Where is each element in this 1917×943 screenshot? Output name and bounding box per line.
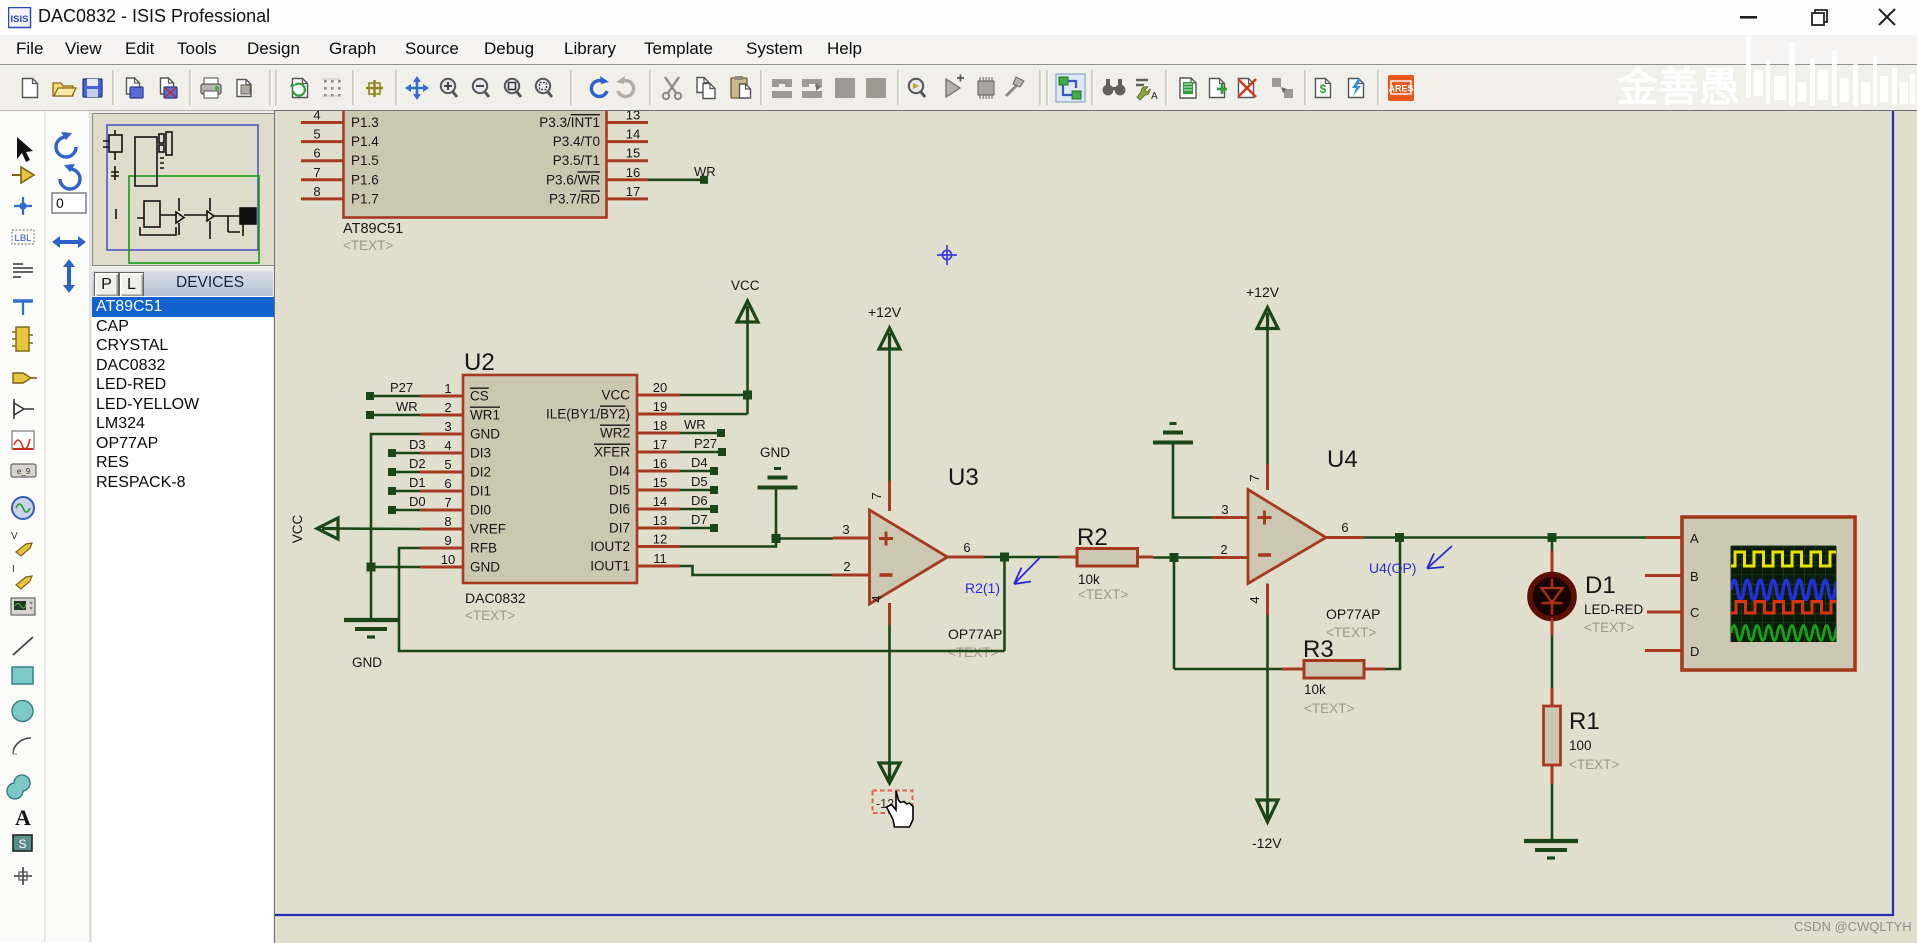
svg-text:R2: R2 xyxy=(1077,524,1108,551)
pin 14 P3.4/T0 of U1 xyxy=(553,127,648,150)
svg-text:D: D xyxy=(1690,644,1699,659)
power arrow VCC top xyxy=(737,301,758,322)
svg-text:S: S xyxy=(18,837,26,851)
svg-text:14: 14 xyxy=(653,494,667,509)
toolbar icon: search tags xyxy=(1103,79,1126,95)
svg-text:D6: D6 xyxy=(691,493,708,508)
tool icon: 2D box mode xyxy=(12,667,33,684)
wire ground to U4 pin 3 xyxy=(1173,443,1212,518)
toolbar icon: print xyxy=(201,78,221,98)
pin D stub of scope xyxy=(1645,649,1682,652)
svg-text:VREF: VREF xyxy=(470,522,506,537)
toolbar icon: block rotate xyxy=(835,78,855,98)
svg-text:WR2: WR2 xyxy=(600,426,630,441)
feedback wire U3 output down xyxy=(1003,557,1006,651)
plus symbol of U4 xyxy=(1258,511,1272,525)
toolbar icon: redo xyxy=(616,76,634,97)
minimap viewport rectangle xyxy=(129,176,259,263)
pin 17 P3.7/RD of U1 xyxy=(549,184,648,207)
pin 7 P1.6 of U1 xyxy=(301,165,379,188)
svg-text:IOUT2: IOUT2 xyxy=(590,539,630,554)
svg-text:6: 6 xyxy=(313,146,320,161)
svg-text:U4: U4 xyxy=(1327,446,1358,473)
svg-text:3: 3 xyxy=(1221,502,1228,517)
wire VCC node to U2 pin 19 xyxy=(680,413,748,416)
svg-text:10: 10 xyxy=(441,552,455,567)
junction at U2 ground node xyxy=(367,563,376,572)
svg-text:P1.3: P1.3 xyxy=(351,115,379,130)
pin 3 stub of U3 xyxy=(833,537,870,540)
wire D4 at U2 pin 16 xyxy=(680,470,711,473)
svg-text:WR: WR xyxy=(396,399,418,414)
svg-text:8: 8 xyxy=(444,514,451,529)
tool icon: generator mode xyxy=(12,497,34,519)
toolbar icon: decompose xyxy=(1006,77,1024,96)
svg-text:DI5: DI5 xyxy=(609,483,630,498)
menu bar xyxy=(0,35,1917,65)
wire WR at U2 pin 18 xyxy=(680,432,718,435)
svg-text:C: C xyxy=(1690,605,1699,620)
terminal square WR net xyxy=(700,176,708,184)
wire ground stem to node xyxy=(775,488,778,539)
svg-text:18: 18 xyxy=(653,418,667,433)
toolbar icon: packaging tool xyxy=(978,77,994,99)
wire to ground symbol xyxy=(370,567,373,619)
svg-text:P1.7: P1.7 xyxy=(351,191,379,206)
toolbar icon: undo xyxy=(591,76,609,97)
toolbar icon: make device xyxy=(946,75,964,98)
svg-text:DI3: DI3 xyxy=(470,446,491,461)
terminal square D0 net xyxy=(388,506,396,514)
minus symbol of U3 xyxy=(880,573,893,577)
toolbar icon: zoom all xyxy=(505,79,521,97)
pin 7 stub of U4 xyxy=(1266,464,1269,490)
pin 20 VCC of U2 xyxy=(601,380,680,403)
terminal square D1 net xyxy=(388,487,396,495)
svg-text:17: 17 xyxy=(626,184,640,199)
svg-text:1: 1 xyxy=(444,381,451,396)
junction at VCC / pin20 node xyxy=(743,391,752,400)
svg-text:DAC0832: DAC0832 xyxy=(465,590,526,606)
svg-text:DI2: DI2 xyxy=(470,465,491,480)
dac U2 DAC0832 body xyxy=(463,375,637,583)
toolbar icon: redraw xyxy=(290,79,308,98)
object selector panel xyxy=(91,111,275,942)
svg-text:ILE(BY1/BY2): ILE(BY1/BY2) xyxy=(546,407,630,422)
svg-text:DI6: DI6 xyxy=(609,502,630,517)
terminal square D5 net xyxy=(710,486,718,494)
svg-text:P3.5/T1: P3.5/T1 xyxy=(553,153,600,168)
svg-text:7: 7 xyxy=(869,492,884,499)
svg-text:-12V: -12V xyxy=(1252,835,1282,851)
minimap mini schematic xyxy=(103,130,256,239)
svg-text:10k: 10k xyxy=(1304,682,1326,697)
svg-text:P3.3/INT1: P3.3/INT1 xyxy=(539,115,600,130)
toolbar icon: zoom in xyxy=(441,79,457,97)
svg-text:A: A xyxy=(15,805,31,830)
toolbar icon: remove sheet xyxy=(1238,79,1256,98)
svg-text:R3: R3 xyxy=(1303,636,1334,663)
pin 8 P1.7 of U1 xyxy=(301,184,379,207)
pin 10 GND of U2 xyxy=(420,552,500,575)
op-amp U4 body xyxy=(1248,490,1326,584)
tool icon: marker mode xyxy=(14,867,32,885)
svg-text:P27: P27 xyxy=(694,436,717,451)
wire +12V to U4 pin 7 xyxy=(1266,329,1269,465)
ground symbol below U2 xyxy=(344,620,398,637)
schematic canvas xyxy=(274,110,1917,943)
pin 16 P3.6/WR of U1 xyxy=(546,165,648,188)
tool icon: wire label mode xyxy=(12,230,34,244)
svg-text:P3.6/WR: P3.6/WR xyxy=(546,172,600,187)
svg-text:15: 15 xyxy=(626,146,640,161)
wire D0 to U2 pin 7 xyxy=(392,509,420,512)
toolbar icon: open design xyxy=(53,83,76,96)
tool icon: bus mode xyxy=(13,301,33,315)
toolbar icon: design explorer xyxy=(1180,78,1196,98)
svg-text:0: 0 xyxy=(56,195,64,211)
wire D1 to R1 xyxy=(1551,635,1554,688)
toolbar icon: goto sheet xyxy=(1272,78,1293,98)
terminal square WR net right xyxy=(717,429,725,437)
junction at U4 output xyxy=(1395,533,1404,542)
toolbar icon: zoom out xyxy=(473,79,489,97)
svg-text:U4(OP): U4(OP) xyxy=(1369,560,1416,576)
svg-text:<TEXT>: <TEXT> xyxy=(1569,757,1619,772)
svg-text:2: 2 xyxy=(444,400,451,415)
wire U3 output to R2 xyxy=(984,556,1059,559)
svg-text:D7: D7 xyxy=(691,512,708,527)
toolbar icon: electrical rule check xyxy=(1349,79,1364,98)
pin 6 P1.5 of U1 xyxy=(301,146,379,169)
svg-text:<TEXT>: <TEXT> xyxy=(343,238,393,253)
svg-text:+12V: +12V xyxy=(868,304,902,320)
svg-text:4: 4 xyxy=(869,595,884,602)
tool icon: 2D circle mode xyxy=(12,701,33,722)
pin 19 ILE(BY1/BY2) of U2 xyxy=(546,399,680,422)
tool icon: selection pointer xyxy=(17,137,33,162)
svg-text:19: 19 xyxy=(653,399,667,414)
power arrow -12V at U3 xyxy=(879,763,900,783)
toolbar icon: property assignment tool xyxy=(1136,80,1158,102)
svg-text:DI0: DI0 xyxy=(470,503,491,518)
svg-text:6: 6 xyxy=(963,540,970,555)
pin 3 stub of U4 xyxy=(1212,516,1248,519)
pin 11 IOUT1 of U2 xyxy=(590,551,680,574)
svg-text:P1.6: P1.6 xyxy=(351,172,379,187)
svg-text:<TEXT>: <TEXT> xyxy=(1584,620,1634,635)
svg-text:P1.4: P1.4 xyxy=(351,134,379,149)
svg-text:OP77AP: OP77AP xyxy=(948,626,1002,642)
svg-text:P27: P27 xyxy=(390,380,413,395)
minimap sheet area xyxy=(107,125,258,250)
left tool sidebar xyxy=(0,111,91,942)
toolbar icon: copy xyxy=(697,78,715,99)
wire WR to U2 pin 2 xyxy=(370,414,420,417)
plus symbol of U3 xyxy=(879,532,893,546)
terminal square P27 net xyxy=(366,392,374,400)
toolbar icon: paste xyxy=(731,76,751,98)
svg-text:e_9: e_9 xyxy=(17,467,31,476)
junction at LED node xyxy=(1548,533,1557,542)
svg-text:DI1: DI1 xyxy=(470,484,491,499)
pin 7 DI0 of U2 xyxy=(420,495,491,518)
pin 14 DI6 of U2 xyxy=(609,494,680,517)
pin 15 DI5 of U2 xyxy=(609,475,680,498)
pin 6 output stub of U4 xyxy=(1326,536,1364,539)
svg-text:6: 6 xyxy=(444,476,451,491)
svg-text:10k: 10k xyxy=(1078,572,1100,587)
terminal square WR net xyxy=(366,411,374,419)
resistor R3 xyxy=(1282,661,1385,679)
svg-text:WR: WR xyxy=(694,164,716,179)
control: rotate anticlockwise xyxy=(60,164,80,189)
svg-text:WR: WR xyxy=(684,417,706,432)
svg-text:16: 16 xyxy=(626,165,640,180)
tool icon: terminals mode xyxy=(13,373,37,383)
wire U3 pin 4 to -12V xyxy=(888,625,891,763)
green sine waveform channel D xyxy=(1731,626,1847,641)
terminal square D7 net xyxy=(710,524,718,532)
toolbar icon: mark output area xyxy=(237,80,251,97)
power arrow VCC at U2 VREF xyxy=(317,518,338,539)
toolbar icon: save design xyxy=(83,79,102,97)
wire D5 at U2 pin 15 xyxy=(680,489,711,492)
tool icon: tape recorder mode xyxy=(11,464,36,477)
watermark xyxy=(1617,53,1740,113)
pin 13 DI7 of U2 xyxy=(609,513,680,536)
svg-text:D5: D5 xyxy=(691,474,708,489)
pin 17 XFER of U2 xyxy=(594,437,680,460)
svg-text:I: I xyxy=(12,564,15,575)
wire U4 pin 4 to -12V xyxy=(1266,615,1269,800)
junction at U3 output xyxy=(1000,553,1009,562)
wire U2 pin3 GND down xyxy=(371,434,420,567)
svg-text:A: A xyxy=(1690,531,1699,546)
pin 16 DI4 of U2 xyxy=(609,456,680,479)
svg-text:U2: U2 xyxy=(464,349,495,376)
svg-text:14: 14 xyxy=(626,127,640,142)
wire D6 at U2 pin 14 xyxy=(680,508,711,511)
wire WR from U1 pin 16 xyxy=(648,179,701,182)
minus symbol of U4 xyxy=(1258,553,1271,557)
wire R3 to U4 output xyxy=(1385,538,1400,670)
terminal square D4 net xyxy=(710,467,718,475)
svg-text:V: V xyxy=(11,531,18,542)
terminal square D2 net xyxy=(388,468,396,476)
ground symbol mid (flipped) xyxy=(758,469,798,488)
scope screen grid xyxy=(1731,546,1836,642)
svg-text:4: 4 xyxy=(1247,596,1262,603)
svg-text:<TEXT>: <TEXT> xyxy=(465,608,515,623)
svg-text:AT89C51: AT89C51 xyxy=(343,221,403,237)
pin 5 P1.4 of U1 xyxy=(301,127,379,150)
svg-text:GND: GND xyxy=(760,445,790,460)
svg-text:13: 13 xyxy=(653,513,667,528)
svg-text:13: 13 xyxy=(626,111,640,123)
pin A stub of scope xyxy=(1646,536,1682,539)
svg-text:IOUT1: IOUT1 xyxy=(590,559,630,574)
toolbar icon: new sheet xyxy=(1210,79,1228,98)
tool icon: device pins mode xyxy=(14,399,34,419)
svg-text:VCC: VCC xyxy=(731,278,760,293)
power arrow -12V at U4 xyxy=(1257,800,1278,822)
svg-text:ARES: ARES xyxy=(1388,84,1413,94)
tool icon: voltage probe mode xyxy=(11,531,32,556)
tool icon: junction dot mode xyxy=(14,197,32,215)
svg-text:5: 5 xyxy=(444,457,451,472)
pin 8 VREF of U2 xyxy=(420,514,506,537)
control: vertical mirror xyxy=(63,259,75,293)
wire U2 pin10 GND xyxy=(371,566,420,569)
control: angle edit box xyxy=(52,193,86,213)
toolbar icon: cut xyxy=(663,77,681,99)
wire +12V to U3 pin 7 xyxy=(888,349,891,481)
svg-text:R1: R1 xyxy=(1569,708,1600,735)
svg-text:D1: D1 xyxy=(409,475,426,490)
svg-text:<TEXT>: <TEXT> xyxy=(948,645,998,660)
svg-text:15: 15 xyxy=(653,475,667,490)
pin 6 output stub of U3 xyxy=(948,556,985,559)
toolbar icon: bill of materials xyxy=(1316,79,1331,98)
svg-text:<TEXT>: <TEXT> xyxy=(1304,701,1354,716)
svg-text:D4: D4 xyxy=(691,455,708,470)
wire LED node down xyxy=(1551,538,1554,552)
blue pointer at R2(1) xyxy=(1014,558,1040,585)
control: rotate clockwise xyxy=(56,132,76,157)
svg-text:VCC: VCC xyxy=(601,388,630,403)
pin 5 DI2 of U2 xyxy=(420,457,491,480)
window buttons xyxy=(1730,5,1910,31)
svg-text:GND: GND xyxy=(352,655,382,670)
tool icon: 2D line mode xyxy=(13,637,33,655)
svg-text:U3: U3 xyxy=(948,464,979,491)
control: horizontal mirror xyxy=(52,236,86,248)
svg-text:11: 11 xyxy=(653,551,667,566)
tool icon: 2D closed path mode xyxy=(7,775,30,799)
svg-text:17: 17 xyxy=(653,437,667,452)
toolbar icon: block delete xyxy=(866,78,886,98)
power arrow +12V at U4 xyxy=(1257,308,1278,329)
pin 18 WR2 of U2 xyxy=(600,418,680,441)
wire D1 to U2 pin 6 xyxy=(392,490,420,493)
pin 2 stub of U3 xyxy=(832,574,870,577)
pin 4 P1.3 of U1 xyxy=(301,108,379,131)
toolbar icon: pick parts xyxy=(909,79,925,97)
svg-text:8: 8 xyxy=(313,184,320,199)
tool icon: 2D symbol mode xyxy=(13,835,32,851)
csdn watermark xyxy=(1794,919,1912,934)
blue sine waveform channel B xyxy=(1731,580,1848,600)
tool icon: virtual instruments mode xyxy=(11,598,35,615)
toolbar icon: netlist to ARES xyxy=(1388,75,1414,101)
pin C stub of scope xyxy=(1647,611,1682,614)
pin 2 WR1 of U2 xyxy=(420,400,500,423)
svg-text:D0: D0 xyxy=(409,494,426,509)
svg-text:R2(1): R2(1) xyxy=(965,580,1000,596)
svg-text:D2: D2 xyxy=(409,456,426,471)
svg-text:WR1: WR1 xyxy=(470,408,500,423)
feedback rail to U2 RFB xyxy=(399,548,1005,651)
wire P27 at U2 pin 17 xyxy=(680,451,719,454)
svg-text:9: 9 xyxy=(444,533,451,548)
svg-text:P3.7/RD: P3.7/RD xyxy=(549,191,600,206)
toolbar icon: pan xyxy=(405,76,429,100)
svg-text:4: 4 xyxy=(313,111,320,123)
svg-text:2: 2 xyxy=(843,559,850,574)
sheet border xyxy=(275,111,1893,915)
svg-text:LED-RED: LED-RED xyxy=(1584,602,1644,617)
pin 12 IOUT2 of U2 xyxy=(590,532,680,555)
wire D2 to U2 pin 5 xyxy=(392,471,420,474)
junction at U4 inverting node xyxy=(1170,553,1179,562)
svg-text:100: 100 xyxy=(1569,738,1592,753)
resistor R2 xyxy=(1059,549,1154,567)
svg-text:D1: D1 xyxy=(1585,572,1616,599)
tool icon: subcircuit mode xyxy=(12,327,33,351)
wire node to U3 pin 3 xyxy=(776,537,833,540)
feedback wire to R3 xyxy=(1174,668,1282,671)
ground symbol above U4 (flipped) xyxy=(1153,424,1193,443)
wire D7 at U2 pin 13 xyxy=(680,527,711,530)
svg-text:20: 20 xyxy=(653,380,667,395)
pin 4 stub of U4 xyxy=(1266,584,1269,616)
origin crosshair marker xyxy=(937,245,957,265)
blue pointer at U4(OP) xyxy=(1427,546,1452,569)
pin 7 stub of U3 xyxy=(888,481,891,511)
pin 13 P3.3/INT1 of U1 xyxy=(539,108,648,131)
pin 4 DI3 of U2 xyxy=(420,438,491,461)
pin B stub of scope xyxy=(1645,574,1682,577)
svg-text:DI4: DI4 xyxy=(609,464,631,479)
pin 3 GND of U2 xyxy=(420,419,500,442)
ground symbol below R1 xyxy=(1524,841,1578,858)
toolbar icon: export section xyxy=(161,78,178,98)
toolbar icon: block move xyxy=(802,79,822,98)
junction at U3 non-inverting node xyxy=(772,534,781,543)
wire VCC arrow to U2 VREF pin 8 xyxy=(338,527,420,530)
wire U2 IOUT2 pin12 to node xyxy=(680,539,776,547)
svg-text:7: 7 xyxy=(444,495,451,510)
toolbar icon: new design xyxy=(23,79,38,98)
feedback wire down from U4 inverting node xyxy=(1173,558,1176,670)
wire U2 IOUT1 pin11 to U3 pin 2 xyxy=(680,566,832,575)
svg-text:B: B xyxy=(1690,569,1699,584)
svg-text:D3: D3 xyxy=(409,437,426,452)
oscilloscope body xyxy=(1682,517,1855,670)
svg-text:<TEXT>: <TEXT> xyxy=(1078,587,1128,602)
wire R2 to U4 pin 2 node xyxy=(1154,556,1213,559)
terminal square D3 net xyxy=(388,449,396,457)
pin 9 RFB of U2 xyxy=(420,533,497,556)
svg-text:CS: CS xyxy=(470,389,489,404)
toolbar xyxy=(0,65,1917,111)
svg-text:DI7: DI7 xyxy=(609,521,630,536)
resistor R1 xyxy=(1544,688,1561,784)
toolbar icon: zoom area xyxy=(536,79,552,97)
wire R1 to ground xyxy=(1551,784,1554,840)
tool icon: component mode xyxy=(12,167,34,183)
scope screen xyxy=(1731,546,1836,642)
power arrow +12V at U3 xyxy=(879,328,900,349)
svg-text:7: 7 xyxy=(313,165,320,180)
svg-text:3: 3 xyxy=(444,419,451,434)
wire P27 to U2 pin 1 xyxy=(370,395,420,398)
led D1 xyxy=(1530,551,1574,635)
svg-text:XFER: XFER xyxy=(594,445,630,460)
wire VCC node to U2 pin 20 xyxy=(680,394,748,397)
pin 6 DI1 of U2 xyxy=(420,476,491,499)
